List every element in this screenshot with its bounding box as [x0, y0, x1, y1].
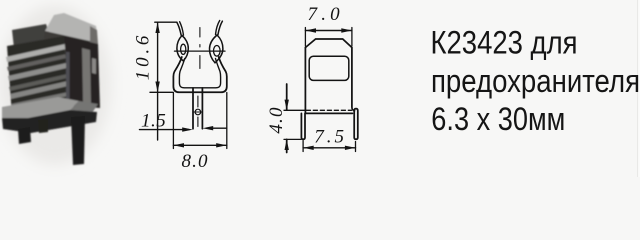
svg-text:4.0: 4.0: [266, 106, 287, 133]
svg-text:К23423 для: К23423 для: [431, 25, 578, 61]
svg-text:7.5: 7.5: [314, 127, 347, 148]
svg-text:10.6: 10.6: [132, 32, 153, 80]
svg-text:1.5: 1.5: [141, 110, 166, 131]
svg-text:предохранителя: предохранителя: [431, 63, 640, 99]
svg-text:6.3 х 30мм: 6.3 х 30мм: [431, 101, 565, 137]
svg-text:8.0: 8.0: [182, 151, 209, 172]
svg-text:7.0: 7.0: [308, 4, 344, 25]
